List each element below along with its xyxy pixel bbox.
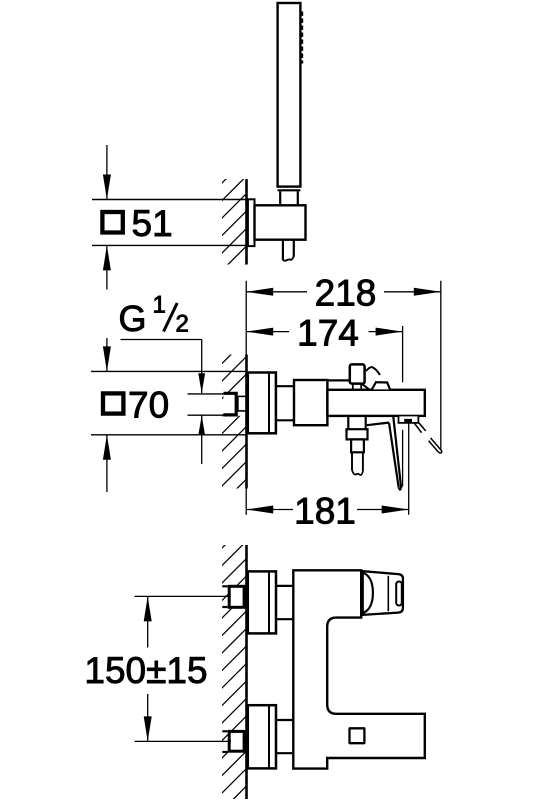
square symbol for 51 [102, 212, 122, 233]
dim 70 arrow down [103, 346, 111, 371]
text G 1/2 fraction slash [164, 303, 178, 332]
mixer body side view [327, 390, 424, 416]
G 1/2 leader vertical [201, 340, 203, 394]
svg-text:G: G [119, 298, 147, 339]
dim 181 arrow right [382, 506, 409, 514]
upper union nut [229, 586, 244, 607]
dim 51 lower shaft [106, 245, 108, 289]
svg-text:2: 2 [176, 311, 189, 338]
dim 218 left extension line [245, 281, 247, 355]
dim 150 upper shaft [147, 596, 149, 647]
hand shower spray face dashes [301, 12, 304, 64]
lever inner line [387, 576, 389, 611]
dim 174 arrow left [246, 328, 273, 336]
holder outlet break line [283, 256, 294, 260]
dim 70 upper shaft [106, 338, 108, 371]
shower holder block [255, 205, 306, 239]
dim 150 lower shaft [147, 694, 149, 741]
lever swing arc [366, 367, 380, 375]
union nut [224, 393, 237, 415]
G 1/2 leader arrow down [198, 373, 205, 393]
aerator dark insert [404, 419, 412, 422]
lever pin stem right [360, 384, 362, 390]
upper nut whisker bottom [222, 606, 227, 608]
dim 51 arrow up [103, 245, 111, 270]
dim 150 top extension line [135, 595, 232, 597]
supply pipe top edge [188, 393, 226, 395]
lever underside edge [367, 423, 389, 426]
dim 174 line right segment [369, 331, 403, 333]
shower outlet pipe right [362, 452, 364, 471]
lever pin [350, 364, 365, 383]
dim 150 bottom extension line [135, 740, 232, 742]
upper escutcheon [248, 571, 276, 633]
lever boss arc [361, 572, 373, 613]
neck bottom edge [276, 419, 296, 421]
dim 70 lower shaft [106, 435, 108, 492]
shower outlet pipe left [351, 452, 353, 470]
dim 218 line left segment [246, 291, 307, 293]
dim 51 arrow down [103, 175, 111, 200]
hand shower joint ring [278, 189, 301, 191]
escutcheon side view [248, 373, 276, 434]
union nut area blank [224, 392, 247, 416]
union nut inner rect [238, 396, 247, 411]
dim 174 right extension lower [402, 430, 404, 487]
hand shower lower handle right edge [297, 191, 299, 206]
holder outlet right edge [293, 240, 295, 257]
dim 181 line left segment [246, 509, 293, 511]
shower outlet flange [347, 429, 368, 439]
dim 51 band bottom line [92, 244, 247, 246]
upper neck top edge [276, 585, 296, 587]
dim 174 line left segment [246, 331, 289, 333]
svg-text:174: 174 [297, 312, 359, 353]
dim 181 left extension line [245, 489, 247, 515]
wall line (bottom section) [245, 545, 248, 799]
lever wedge [372, 382, 390, 389]
dim 150 arrow up [144, 596, 152, 621]
lower nut whisker bottom [222, 751, 227, 753]
aerator housing [399, 416, 419, 423]
mixer body front view [293, 570, 425, 768]
shower outlet neck right [365, 416, 367, 429]
dim 51 upper shaft [106, 145, 108, 200]
dim 174 arrow right [376, 328, 403, 336]
lower escutcheon [248, 705, 276, 768]
water stream hairpin [429, 438, 442, 453]
lower neck top edge [276, 719, 296, 721]
upper escutcheon rim line [268, 571, 270, 633]
dim 70 arrow up [103, 435, 111, 460]
cartridge housing [294, 380, 327, 425]
dim 51 band top line [92, 199, 247, 201]
lower escutcheon rim line [268, 705, 270, 768]
lower neck bottom edge [276, 752, 296, 754]
lever slot [396, 582, 402, 606]
dim 174 right extension upper [402, 326, 404, 382]
lever hinge slant piece [362, 384, 369, 389]
lever blade tip [399, 488, 402, 490]
lever end view body [363, 571, 403, 615]
escutcheon rim line [268, 373, 270, 434]
G 1/2 leader horizontal [121, 339, 202, 341]
holder wall plate [248, 199, 255, 246]
shower outlet middle [351, 439, 364, 452]
hand shower stick body [278, 3, 301, 187]
svg-text:51: 51 [132, 203, 173, 244]
dim 218 arrow right [414, 288, 441, 296]
supply pipe bottom edge [188, 414, 226, 416]
water stream segment 1a [414, 423, 422, 433]
shower outlet pipe break [352, 470, 363, 475]
dim 218 line right segment [384, 291, 441, 293]
lever pin stem left [352, 384, 354, 390]
wall line (middle section) [245, 355, 248, 489]
svg-text:70: 70 [128, 385, 169, 426]
upper nut whisker top [222, 585, 227, 587]
hand shower lower handle left edge [279, 191, 281, 206]
svg-text:218: 218 [315, 273, 377, 314]
svg-text:181: 181 [294, 490, 356, 531]
dim 181 arrow left [246, 506, 273, 514]
dim 181 line right segment [357, 509, 409, 511]
lever blade right edge [393, 417, 401, 489]
dim 70 band bottom line [91, 434, 247, 436]
svg-text:150±15: 150±15 [84, 650, 207, 691]
shower outlet neck left [347, 416, 349, 429]
svg-text:1: 1 [153, 292, 166, 319]
lever blade left edge [389, 423, 399, 488]
lower union nut [229, 731, 244, 751]
dim 218 right extension line [440, 281, 442, 451]
holder outlet left edge [282, 240, 284, 260]
lower nut whisker top [222, 730, 227, 732]
square symbol for 70 [103, 393, 123, 413]
spout square aerator mark [350, 728, 365, 743]
body top step line [328, 379, 350, 381]
dim 181 right extension line [408, 418, 410, 515]
G 1/2 leader arrow up [198, 415, 205, 435]
water stream segment 1b [419, 423, 426, 431]
dim 70 band top line [91, 370, 247, 372]
dim 218 arrow left [246, 288, 273, 296]
wall line (top section) [245, 179, 248, 265]
upper neck bottom edge [276, 618, 296, 620]
G 1/2 leader lower shaft [201, 415, 203, 464]
dim 150 arrow down [144, 716, 152, 741]
neck top edge [276, 385, 296, 387]
